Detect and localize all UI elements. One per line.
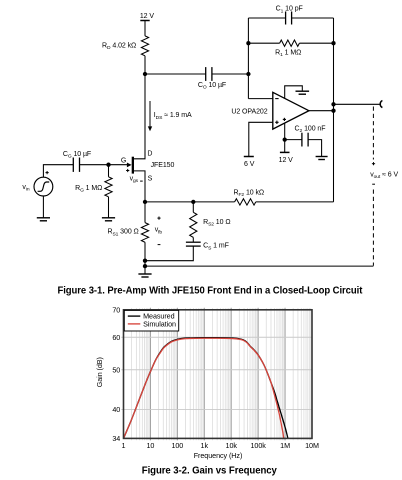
- svg-text:vgs: vgs: [130, 175, 139, 184]
- op-amp U2 OPA202: [231, 92, 309, 129]
- wire supply node to 12V: [284, 140, 286, 153]
- wire CS bottom return: [145, 246, 193, 261]
- wire RD to drain node: [144, 56, 146, 74]
- resistor RD 4.02 k: [102, 36, 149, 56]
- wire vin to CG: [43, 165, 73, 178]
- node source junction: [143, 200, 147, 204]
- svg-text:CO 10 µF: CO 10 µF: [198, 82, 226, 91]
- ground C2: [316, 157, 328, 160]
- wire drain vertical: [134, 74, 145, 159]
- capacitor CG 10 uF: [63, 151, 91, 172]
- label vin plus: [46, 171, 49, 174]
- resistor RG 1 M: [75, 165, 112, 197]
- resistor R1 1 M: [275, 40, 301, 58]
- capacitor CO 10 uF: [198, 67, 226, 90]
- node ground upper junction: [143, 259, 147, 263]
- chart y axis title: [95, 357, 104, 387]
- transistor Q1 JFE150: [127, 157, 175, 174]
- svg-text:Simulation: Simulation: [143, 320, 176, 329]
- svg-text:RD 4.02 kΩ: RD 4.02 kΩ: [102, 42, 136, 51]
- chart x axis title: [194, 451, 243, 460]
- svg-text:50: 50: [112, 365, 120, 374]
- svg-text:Figure 3-2. Gain vs Frequency: Figure 3-2. Gain vs Frequency: [142, 466, 277, 477]
- label vout approx 6 V: [370, 171, 398, 180]
- ground RG: [102, 218, 115, 221]
- svg-text:CG 10 µF: CG 10 µF: [63, 151, 91, 160]
- wire RS1 to ground node: [144, 242, 146, 266]
- wire vout dashed upper: [372, 107, 374, 160]
- svg-text:IDS ≈ 1.9 mA: IDS ≈ 1.9 mA: [154, 112, 192, 121]
- chart border: [124, 310, 313, 439]
- svg-text:1M: 1M: [280, 441, 290, 450]
- wire RS2 to CS: [192, 237, 194, 242]
- wire op-amp bottom pin: [284, 123, 286, 140]
- label vgs plus: [126, 169, 129, 172]
- svg-text:Gain (dB): Gain (dB): [95, 357, 104, 387]
- wire 12V to RD: [144, 21, 146, 36]
- node inverting input junction: [246, 72, 250, 76]
- ground op-amp top pin: [296, 91, 310, 94]
- svg-text:34: 34: [112, 434, 120, 443]
- resistor RF2 10 k: [234, 189, 265, 205]
- svg-text:G: G: [121, 158, 126, 165]
- capacitor C1 10 pF: [276, 6, 303, 25]
- label vout minus: [372, 183, 375, 185]
- wire op-amp output: [309, 110, 334, 112]
- wire op-amp top pin to ground: [285, 86, 303, 99]
- chart curve measured (black): [124, 338, 288, 439]
- svg-text:C1 10 pF: C1 10 pF: [276, 6, 303, 15]
- chart horizontal gridlines: [121, 337, 312, 409]
- svg-text:10k: 10k: [226, 441, 238, 450]
- svg-text:RG 1 MΩ: RG 1 MΩ: [75, 185, 102, 194]
- svg-text:100: 100: [171, 441, 183, 450]
- wire supply node to C2: [285, 139, 302, 141]
- wire ground stem: [144, 266, 146, 274]
- svg-text:1k: 1k: [201, 441, 209, 450]
- wire vin to ground: [42, 196, 44, 218]
- svg-text:vfb: vfb: [155, 227, 163, 236]
- label vout plus: [372, 162, 375, 165]
- wire source node to RS2: [145, 201, 193, 203]
- chart plot background: [124, 310, 313, 439]
- node output terminal junction: [331, 102, 335, 106]
- wire vout dashed lower: [372, 190, 374, 266]
- resistor RS1 300: [107, 202, 148, 242]
- wire RS2 to RF2: [193, 201, 234, 203]
- wire C1 top left segment: [248, 17, 285, 19]
- wire gate rail: [109, 164, 128, 166]
- label pin D: [147, 150, 152, 157]
- resistor RS2 10: [190, 202, 231, 237]
- wire feedback left vertical: [247, 18, 249, 99]
- svg-text:vout ≈ 6 V: vout ≈ 6 V: [370, 171, 398, 180]
- svg-text:10M: 10M: [305, 441, 319, 450]
- svg-text:CS 1 mF: CS 1 mF: [203, 243, 229, 252]
- wire CG to gate node: [80, 164, 109, 166]
- ground main: [138, 274, 151, 277]
- supply 12 V bottom: [279, 152, 294, 164]
- chart curve simulation (red): [124, 338, 284, 438]
- node R1 left junction: [246, 41, 250, 45]
- chart minor gridlines: [132, 308, 311, 440]
- svg-text:JFE150: JFE150: [151, 162, 175, 169]
- chart major vertical gridlines: [150, 308, 285, 441]
- svg-text:U2 OPA202: U2 OPA202: [231, 108, 267, 115]
- label pin G: [121, 158, 126, 165]
- svg-text:Frequency (Hz): Frequency (Hz): [194, 451, 243, 460]
- svg-text:10: 10: [146, 441, 154, 450]
- chart legend: [124, 310, 178, 331]
- node RS2 top junction: [191, 200, 195, 204]
- wire C2 to ground: [308, 140, 322, 157]
- svg-text:100k: 100k: [250, 441, 266, 450]
- svg-text:RS1 300 Ω: RS1 300 Ω: [107, 229, 138, 238]
- wire R1 left segment: [248, 42, 279, 44]
- svg-text:12 V: 12 V: [279, 157, 294, 164]
- wire RF2 to output column: [256, 201, 334, 203]
- svg-text:Figure 3-1. Pre-Amp With JFE15: Figure 3-1. Pre-Amp With JFE150 Front En…: [58, 286, 363, 297]
- svg-text:60: 60: [112, 333, 120, 342]
- wire noninverting input: [249, 122, 273, 156]
- node R1 right junction: [331, 41, 335, 45]
- node op-amp supply junction: [283, 137, 287, 141]
- svg-text:6 V: 6 V: [244, 161, 255, 168]
- chart x tick labels: [122, 441, 319, 450]
- node gate junction: [106, 163, 110, 167]
- svg-text:vin: vin: [22, 184, 29, 193]
- node ground lower junction: [143, 264, 147, 268]
- svg-text:R1 1 MΩ: R1 1 MΩ: [275, 49, 301, 58]
- label vfb plus: [157, 217, 160, 220]
- svg-text:D: D: [147, 150, 152, 157]
- supply 12 V top: [140, 13, 155, 21]
- label vgs: [130, 175, 139, 184]
- node drain junction: [143, 72, 147, 76]
- current arrow IDS: [148, 101, 192, 131]
- label pin S: [148, 175, 153, 182]
- svg-text:40: 40: [112, 405, 120, 414]
- svg-text:1: 1: [122, 441, 126, 450]
- svg-text:RF2 10 kΩ: RF2 10 kΩ: [234, 189, 265, 198]
- node output junction: [331, 109, 335, 113]
- wire C1 top right segment: [292, 17, 334, 19]
- svg-text:70: 70: [112, 305, 120, 314]
- chart y tick labels: [112, 305, 120, 443]
- caption figure 3-2: [142, 466, 277, 477]
- label vgs minus: [140, 180, 143, 182]
- svg-text:S: S: [148, 175, 153, 182]
- wire CO to inverting node: [212, 73, 249, 75]
- wire feedback right vertical: [333, 18, 335, 202]
- svg-text:12 V: 12 V: [140, 13, 155, 20]
- wire inverting input: [248, 98, 272, 100]
- wire to output terminal: [334, 103, 381, 105]
- supply 6 V: [244, 157, 255, 168]
- source vin: [22, 177, 52, 196]
- output terminal connector: [380, 101, 382, 108]
- svg-text:C2 100 nF: C2 100 nF: [295, 125, 326, 134]
- wire ground rail: [145, 265, 373, 267]
- wire drain node to CO: [145, 73, 206, 75]
- label vfb: [155, 227, 163, 236]
- label vfb minus: [158, 244, 161, 246]
- ground vin: [37, 218, 50, 221]
- svg-text:RS2 10 Ω: RS2 10 Ω: [203, 219, 230, 228]
- wire RG to ground: [108, 197, 110, 218]
- wire source vertical: [134, 171, 145, 202]
- caption figure 3-1: [58, 286, 363, 297]
- wire R1 right segment: [299, 42, 333, 44]
- capacitor CS 1 mF: [186, 242, 229, 251]
- capacitor C2 100 nF: [295, 125, 326, 146]
